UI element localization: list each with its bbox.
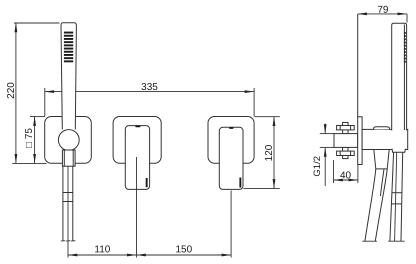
valve body behind wall: [334, 134, 358, 148]
break baseline under hose: [388, 240, 405, 242]
hose break baseline: [61, 240, 76, 242]
wand handle below ring: [62, 150, 75, 166]
break baseline under spout: [362, 240, 377, 242]
extension line plate-top (75 dim): [30, 116, 45, 118]
G1/2 dimension arrows: [324, 124, 326, 187]
svg-text:110: 110: [94, 244, 110, 255]
dimension 40 line: [334, 179, 358, 181]
supply flange bottom: [337, 151, 355, 155]
svg-text:150: 150: [175, 244, 192, 255]
center line middle unit: [136, 157, 138, 258]
extension line wand face: [406, 14, 408, 23]
dimension 79 line: [358, 13, 407, 15]
lever handle: [125, 126, 149, 190]
svg-text:79: 79: [377, 5, 389, 16]
extension line 120 bottom: [244, 188, 280, 190]
spout top mark: [229, 127, 234, 129]
wall plate P3 (right, spout): [208, 117, 254, 164]
wall plate P2 (middle, mixer valve): [113, 117, 161, 164]
svg-text:□ 75: □ 75: [24, 128, 35, 148]
wand face inner line: [403, 25, 405, 131]
supply pipe bottom (G1/2): [343, 147, 348, 158]
hose center line: [67, 166, 69, 257]
svg-text:G1/2: G1/2: [312, 156, 323, 177]
wall plate P1 (left, hand shower holder): [45, 117, 92, 164]
dimension 335 line: [45, 91, 254, 93]
svg-text:335: 335: [141, 82, 158, 93]
holder ring: [58, 130, 79, 151]
svg-text:220: 220: [6, 82, 17, 99]
hose left line: [62, 166, 64, 241]
supply flange top: [337, 126, 355, 130]
extension line 120 top: [255, 116, 280, 118]
holder cup under wand: [392, 149, 405, 153]
mounting plate side: [358, 117, 362, 165]
handle inner line left: [63, 150, 65, 166]
wall line: [357, 14, 359, 117]
hose side left: [390, 152, 394, 241]
spout inner line: [380, 169, 384, 196]
extension line spout center: [230, 191, 232, 258]
handle top mark: [135, 125, 140, 127]
holder body side: [362, 129, 408, 149]
hose right line: [72, 166, 74, 241]
lever handle side bump: [374, 127, 390, 130]
hose side connector 1: [392, 192, 402, 194]
spout root cone: [374, 150, 389, 169]
hose connector line 1: [63, 192, 73, 194]
flange top hex lines: [339, 126, 341, 130]
svg-text:120: 120: [264, 144, 275, 161]
extension line left (335 dim): [44, 88, 46, 116]
spout body: [219, 127, 243, 189]
extension line top (220 dim): [14, 22, 60, 24]
spout side mark: [239, 178, 241, 188]
extension line right (335 dim): [253, 88, 255, 116]
wand side view: [392, 23, 407, 130]
wand nozzle dots: [404, 32, 406, 63]
svg-text:40: 40: [340, 170, 352, 181]
dimension 220 line: [15, 23, 17, 163]
spout curve left: [365, 169, 376, 241]
dimension 110-150 baseline: [68, 254, 231, 256]
hose side right: [401, 152, 403, 241]
supply pipe top (G1/2): [343, 122, 348, 133]
hose side center: [395, 152, 397, 241]
hose connector line 2: [63, 201, 73, 203]
dimension 120 line: [273, 117, 275, 188]
flange bottom hex lines: [339, 151, 341, 155]
dimension 40 extension left: [333, 160, 335, 183]
spout curve right: [375, 169, 387, 241]
handle inner line right: [72, 150, 74, 166]
G1/2 extension line top: [320, 133, 334, 135]
hand shower wand: [61, 23, 76, 130]
dimension 40 extension right: [357, 165, 359, 184]
hose side connector 2: [392, 203, 402, 205]
dimension 75 line: [34, 117, 36, 163]
extension line bottom (220 / 75 dims): [12, 162, 46, 164]
G1/2 extension line bottom: [320, 146, 334, 148]
handle side mark: [146, 178, 148, 187]
wand spray grille: [64, 32, 73, 63]
